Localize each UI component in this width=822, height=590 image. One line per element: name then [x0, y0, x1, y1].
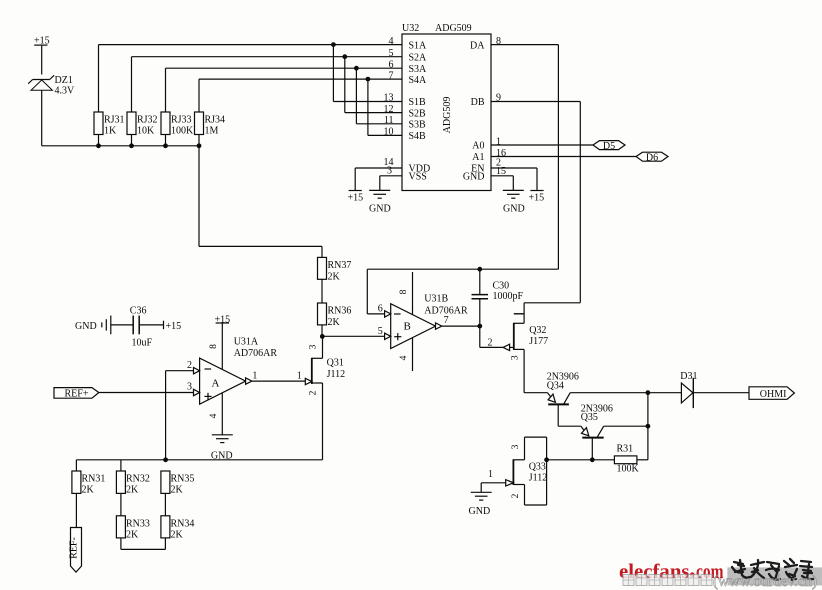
wire S4A row [199, 78, 402, 80]
svg-text:6: 6 [389, 59, 394, 70]
svg-text:RN35: RN35 [171, 474, 195, 485]
pin 9 DB wire [491, 102, 580, 303]
svg-text:5: 5 [389, 48, 394, 59]
svg-text:7: 7 [444, 315, 449, 326]
pin 1 A0 wire to D5 [491, 144, 593, 146]
op-amp U31B AD706AR [385, 272, 442, 371]
svg-text:ADG509: ADG509 [442, 97, 453, 134]
wire RJ34 bottom to RN37 [199, 146, 322, 258]
wire feedback op-amp B pin 6 [367, 269, 558, 314]
junction Q35 base / R31 [590, 457, 595, 462]
svg-text:D31: D31 [680, 371, 697, 382]
multiplexer U32 ADG509 body [402, 34, 491, 191]
wire node to op-amp B pin 5 [322, 335, 384, 337]
svg-text:7: 7 [389, 70, 394, 81]
svg-text:GND: GND [503, 203, 525, 214]
pin 3 VSS wire to ground [380, 176, 402, 191]
wire collector node down to R31 [637, 393, 648, 460]
junction RJ34 bottom [197, 143, 202, 148]
resistor R31 100K [547, 456, 637, 464]
junction S2A branch [342, 54, 347, 59]
svg-text:2: 2 [488, 338, 493, 349]
svg-text:S2B: S2B [409, 108, 427, 119]
wire op-amp B output to C30 node [442, 325, 480, 327]
svg-text:3: 3 [187, 381, 192, 392]
transistor Q31 J112 [305, 336, 322, 459]
svg-text:REF+: REF+ [65, 388, 89, 399]
pin 2 EN wire to +15 [491, 168, 544, 191]
chip pin names right [463, 40, 485, 182]
capacitor C30 1000pF [472, 269, 489, 326]
transistor Q33 J112 [506, 437, 547, 505]
resistor RN37 2K [318, 257, 327, 279]
svg-text:1K: 1K [104, 126, 117, 137]
svg-text:1: 1 [488, 469, 493, 480]
svg-text:D5: D5 [603, 141, 615, 152]
svg-text:GND: GND [463, 172, 485, 183]
junction Q33 node [544, 457, 549, 462]
junction Q35 collector [646, 424, 651, 429]
svg-text:2K: 2K [171, 485, 184, 496]
junction feedback A / RN35 top [163, 457, 168, 462]
wire [321, 325, 323, 337]
svg-text:A1: A1 [472, 152, 484, 163]
Chinese calligraphy 电子发烧友 (drawn strokes) [732, 559, 813, 580]
svg-text:A0: A0 [472, 141, 484, 152]
svg-text:GND: GND [75, 321, 97, 332]
svg-text:OHMI: OHMI [760, 389, 787, 400]
resistor RJ32 10K [127, 57, 136, 146]
transistor Q34 2N3906 [524, 393, 648, 427]
svg-text:3: 3 [387, 166, 392, 177]
svg-text:RN34: RN34 [171, 518, 195, 529]
op-amp U31A AD706AR [194, 323, 252, 435]
svg-text:RJ31: RJ31 [104, 115, 125, 126]
elecfans.com logo (red) [619, 559, 724, 583]
resistor RJ33 100K [161, 68, 170, 146]
svg-text:S1A: S1A [409, 40, 428, 51]
connector REF- [71, 528, 82, 573]
connector REF+ [54, 388, 99, 399]
svg-text:ADG509: ADG509 [435, 23, 472, 34]
junction RN36 / Q31 drain / pin 5 [320, 334, 325, 339]
svg-text:RJ34: RJ34 [205, 115, 226, 126]
svg-text:RN33: RN33 [126, 518, 150, 529]
resistor RN31 2K [72, 460, 81, 528]
svg-text:DA: DA [470, 40, 485, 51]
svg-text:2: 2 [511, 493, 521, 498]
svg-text:U31B: U31B [424, 294, 448, 305]
wire S1A row [99, 44, 403, 46]
ground symbol (VSS) [369, 190, 390, 198]
wire drop to S3B [356, 68, 402, 124]
junction S1A branch [331, 42, 336, 47]
svg-text:100K: 100K [617, 463, 640, 474]
svg-text:4.3V: 4.3V [55, 86, 76, 97]
pin 16 A1 wire to D6 [491, 156, 636, 158]
pin 8 DA wire [491, 45, 558, 270]
svg-text:15: 15 [496, 166, 506, 177]
svg-text:J112: J112 [327, 369, 346, 380]
connector D6 [636, 152, 668, 161]
junction op-amp B output / C30 bottom [477, 324, 482, 329]
wire [321, 279, 323, 303]
ground symbol (op-amp A pin 4) [212, 435, 233, 443]
svg-text:6: 6 [378, 304, 383, 315]
svg-text:+15: +15 [215, 314, 231, 325]
junction S4A branch [366, 77, 371, 82]
svg-text:100K: 100K [171, 126, 194, 137]
wire drop to S1B [333, 45, 402, 102]
diode D31 [648, 378, 749, 408]
svg-text:8: 8 [209, 344, 219, 349]
junction S3A branch [354, 66, 359, 71]
gray band behind Chinese logo [727, 567, 822, 585]
ground symbol (Q33 gate) [471, 492, 492, 500]
svg-text:RJ32: RJ32 [137, 115, 158, 126]
svg-text:DB: DB [471, 97, 485, 108]
svg-text:S2A: S2A [409, 52, 428, 63]
svg-text:B: B [404, 321, 411, 333]
svg-text:10uF: 10uF [132, 338, 153, 349]
svg-text:J177: J177 [529, 336, 548, 347]
svg-text:J112: J112 [529, 473, 548, 484]
ground symbol (pin 15) [503, 190, 524, 198]
junction RJ33 bottom [163, 143, 168, 148]
wire (bottom rail of RJ ladder) [42, 145, 199, 147]
wire op-amp A pin 2 feedback [166, 371, 194, 460]
svg-text:AD706AR: AD706AR [234, 348, 278, 359]
svg-text:3: 3 [511, 444, 521, 449]
svg-text:GND: GND [211, 450, 233, 461]
svg-text:1000pF: 1000pF [493, 291, 524, 302]
svg-text:1: 1 [297, 371, 302, 382]
svg-text:C30: C30 [493, 280, 510, 291]
wire [41, 90, 43, 146]
gray watermark 中国电子开发网(www.ourdev.cn) [623, 573, 817, 590]
svg-text:1: 1 [252, 371, 257, 382]
svg-text:RN36: RN36 [328, 306, 352, 317]
wire bottom rail (RN ladder) [76, 459, 322, 461]
svg-text:8: 8 [399, 289, 409, 294]
svg-text:RN31: RN31 [82, 474, 106, 485]
junction Q34 collector / D31 [646, 390, 651, 395]
svg-text:GND: GND [469, 506, 491, 517]
wire drop to S2B [345, 57, 402, 113]
transistor Q35 2N3906 [558, 426, 648, 460]
svg-text:D6: D6 [646, 152, 658, 163]
svg-text:S3B: S3B [409, 120, 427, 131]
resistor RN35 2K [161, 471, 170, 516]
svg-text:+15: +15 [529, 192, 545, 203]
svg-text:U32: U32 [402, 23, 419, 34]
svg-text:3: 3 [511, 355, 521, 360]
svg-text:4: 4 [399, 355, 409, 360]
wire REF+ to op-amp A pin 3 [99, 392, 194, 394]
svg-text:C36: C36 [130, 305, 147, 316]
pin 14 VDD wire to +15 [349, 168, 402, 191]
svg-text:Q35: Q35 [581, 412, 598, 423]
svg-text:S1B: S1B [409, 97, 427, 108]
svg-text:S4A: S4A [409, 75, 428, 86]
svg-text:RN32: RN32 [126, 474, 150, 485]
wire Q33 gate to ground [481, 483, 506, 493]
svg-text:U31A: U31A [234, 336, 259, 347]
svg-text:8: 8 [496, 36, 501, 47]
wire drop to S4B [368, 79, 402, 135]
wire output down to Q32 gate [480, 326, 503, 347]
svg-text:4: 4 [389, 36, 394, 47]
svg-text:R31: R31 [617, 443, 634, 454]
svg-text:10K: 10K [137, 126, 155, 137]
connector D5 [593, 141, 625, 150]
svg-text:10: 10 [384, 127, 394, 138]
wire S2A row [132, 56, 403, 58]
svg-text:RJ33: RJ33 [171, 115, 192, 126]
zener diode DZ1 4.3V [28, 75, 54, 90]
svg-text:Q32: Q32 [529, 325, 546, 336]
svg-text:2K: 2K [82, 485, 95, 496]
transistor Q32 J177 [503, 303, 580, 393]
junction feedback / C30 top [477, 267, 482, 272]
svg-text:GND: GND [369, 203, 391, 214]
svg-text:2K: 2K [328, 272, 341, 283]
svg-text:3: 3 [309, 344, 319, 349]
resistor RN36 2K [318, 303, 327, 325]
svg-text:A: A [212, 378, 220, 390]
wire S3A row [166, 67, 403, 69]
svg-text:+15: +15 [34, 36, 50, 47]
svg-text:2: 2 [309, 390, 319, 395]
svg-text:2K: 2K [126, 485, 139, 496]
svg-text:1: 1 [496, 136, 501, 147]
wire op-amp A output to Q31 gate [252, 380, 305, 382]
pin 15 GND wire to ground [491, 176, 513, 191]
svg-text:VSS: VSS [409, 172, 427, 183]
svg-text:S3A: S3A [409, 64, 428, 75]
svg-text:Q34: Q34 [547, 380, 564, 391]
svg-text:DZ1: DZ1 [55, 75, 73, 86]
svg-text:+15: +15 [166, 321, 182, 332]
svg-text:1M: 1M [205, 126, 219, 137]
svg-text:5: 5 [378, 326, 383, 337]
svg-text:Q31: Q31 [327, 357, 344, 368]
junction RJ32 bottom [129, 143, 134, 148]
svg-text:S4B: S4B [409, 131, 427, 142]
power +15 (top left) [34, 45, 47, 74]
svg-text:REF-: REF- [69, 537, 80, 559]
svg-text:2K: 2K [126, 529, 139, 540]
resistor RJ34 1M [195, 79, 204, 146]
svg-text:2K: 2K [171, 529, 184, 540]
capacitor C36 10uF with ground and +15 [102, 316, 164, 335]
svg-text:(www.ourdev.cn): (www.ourdev.cn) [713, 573, 817, 590]
svg-text:Q33: Q33 [529, 461, 546, 472]
svg-text:13: 13 [384, 93, 394, 104]
svg-text:9: 9 [496, 93, 501, 104]
pin numbers U32 left [384, 36, 394, 177]
svg-text:RN37: RN37 [328, 260, 352, 271]
svg-text:2K: 2K [328, 317, 341, 328]
junction RJ31 bottom [96, 143, 101, 148]
svg-text:4: 4 [209, 413, 219, 418]
resistor RN32 2K [116, 460, 125, 516]
connector OHMI [749, 387, 794, 400]
svg-text:12: 12 [384, 104, 394, 115]
svg-text:+15: +15 [348, 192, 364, 203]
svg-text:11: 11 [384, 115, 394, 126]
resistor RJ31 1K [94, 45, 103, 146]
resistor RN33 2K [116, 516, 165, 550]
resistor RN34 2K [161, 516, 170, 550]
svg-text:2: 2 [187, 360, 192, 371]
